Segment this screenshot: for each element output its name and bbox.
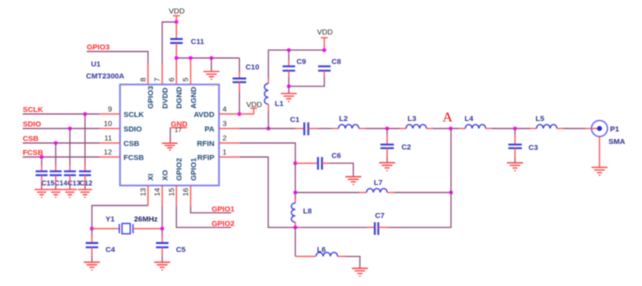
- capacitor C11: [170, 37, 204, 46]
- pin 7 DVDD: [153, 64, 170, 109]
- wire gnd stem: [210, 58, 212, 72]
- node L7: [293, 191, 297, 195]
- svg-text:AGND: AGND: [189, 86, 198, 109]
- wire gnd stem C9: [288, 86, 290, 93]
- capacitor C7: [375, 211, 385, 235]
- inductor L1: [264, 78, 283, 111]
- svg-text:CMT2300A: CMT2300A: [86, 72, 125, 81]
- svg-text:1: 1: [223, 148, 227, 157]
- connector P1 SMA: [592, 121, 626, 147]
- svg-text:SCLK: SCLK: [124, 110, 145, 119]
- pin 13 XI: [139, 174, 156, 206]
- wire rail to C10: [238, 58, 240, 73]
- wire L7 left: [295, 192, 360, 194]
- wire XO down: [161, 206, 163, 229]
- svg-text:C6: C6: [332, 151, 342, 160]
- ground rail: [203, 72, 219, 80]
- wire L2 to C2: [359, 128, 366, 130]
- capacitor C13: [64, 171, 81, 187]
- power VDD top: [169, 7, 185, 23]
- wire C6 right gnd: [322, 162, 329, 164]
- pin 6 DGND: [167, 58, 184, 109]
- node L8 bottom: [293, 226, 297, 230]
- node SCLK: [83, 112, 87, 116]
- capacitor C6: [318, 151, 341, 170]
- svg-text:11: 11: [104, 134, 112, 143]
- svg-text:CSB: CSB: [124, 139, 140, 148]
- wire C6 left: [295, 162, 318, 164]
- pin 11 CSB: [100, 134, 140, 149]
- wire C7 left: [295, 226, 367, 228]
- inductor L3: [406, 114, 426, 129]
- svg-text:RFIN: RFIN: [197, 139, 215, 148]
- capacitor C8: [318, 57, 341, 71]
- wire SDIO: [23, 128, 100, 130]
- capacitor C14: [50, 171, 68, 187]
- svg-text:VDD: VDD: [169, 7, 185, 16]
- wire ground rail: [176, 57, 239, 59]
- svg-text:SMA: SMA: [609, 137, 626, 146]
- node C9 gnd: [287, 84, 291, 88]
- svg-text:L2: L2: [339, 114, 348, 123]
- svg-text:C15: C15: [42, 181, 55, 188]
- svg-text:17: 17: [175, 127, 183, 134]
- node C3: [513, 127, 517, 131]
- svg-text:10: 10: [104, 119, 112, 128]
- wire FCSB: [23, 156, 100, 158]
- svg-text:VDD: VDD: [317, 28, 333, 37]
- svg-text:3: 3: [223, 119, 227, 128]
- node CSB: [54, 141, 58, 145]
- wire L1 to PA: [267, 111, 269, 129]
- svg-text:GPIO1: GPIO1: [189, 158, 198, 181]
- wire VDD to C11: [175, 22, 177, 39]
- wire SCLK to C12: [84, 114, 86, 165]
- wire PA line: [239, 128, 295, 130]
- node rail DGND: [175, 56, 179, 60]
- svg-text:DVDD: DVDD: [160, 87, 169, 109]
- wire C8 bottom: [323, 71, 325, 77]
- wire L5 to P1: [557, 128, 564, 130]
- capacitor C12: [79, 171, 92, 187]
- wire VDD rail right: [268, 50, 324, 78]
- svg-text:CSB: CSB: [23, 134, 39, 143]
- svg-text:L4: L4: [465, 114, 475, 123]
- wire C4 gnd: [91, 247, 93, 256]
- wire C7 right up to A: [378, 226, 387, 228]
- svg-text:C12: C12: [80, 181, 93, 188]
- svg-text:C11: C11: [191, 37, 204, 46]
- svg-text:L1: L1: [275, 99, 284, 108]
- svg-text:C3: C3: [529, 143, 539, 152]
- wire C5 gnd: [161, 247, 163, 256]
- svg-text:VDD: VDD: [246, 100, 262, 109]
- pin 8 GPIO3: [139, 64, 156, 109]
- wire C3 gnd: [514, 148, 516, 158]
- svg-text:16: 16: [181, 188, 190, 196]
- svg-text:SCLK: SCLK: [23, 105, 44, 114]
- pin 14 XO: [153, 170, 170, 206]
- wire C13 gnd: [69, 175, 71, 183]
- wire C1 to L2: [308, 128, 317, 130]
- inductor L4: [465, 114, 486, 129]
- capacitor C10: [233, 63, 260, 83]
- svg-text:XO: XO: [160, 170, 169, 181]
- wire L6 stem: [294, 227, 296, 256]
- node C2: [385, 127, 389, 131]
- power VDD right rail: [317, 28, 333, 51]
- svg-text:12: 12: [104, 148, 112, 157]
- capacitor C4: [86, 243, 116, 254]
- wire GPIO1: [191, 206, 232, 213]
- svg-text:AVDD: AVDD: [194, 110, 215, 119]
- node A: [449, 127, 453, 131]
- svg-text:Y1: Y1: [106, 215, 115, 224]
- svg-text:C14: C14: [55, 181, 68, 188]
- ground chip pad: [162, 143, 178, 150]
- svg-text:8: 8: [139, 78, 148, 82]
- wire C2 gnd: [386, 148, 388, 158]
- svg-text:RFIP: RFIP: [197, 153, 214, 162]
- wire C9 top: [288, 50, 290, 60]
- ground C15: [35, 190, 49, 198]
- inductor L8: [291, 199, 311, 227]
- wire FCSB to C15: [41, 157, 43, 165]
- ground C2: [379, 163, 395, 171]
- ground C9: [281, 94, 297, 102]
- pin 9 SCLK: [100, 105, 145, 120]
- pin 1 RFIP: [197, 148, 239, 163]
- wire AVDD to VDD: [239, 113, 254, 115]
- wire L7 right: [387, 192, 394, 194]
- pin 4 AVDD: [194, 105, 240, 120]
- svg-text:P1: P1: [610, 125, 619, 134]
- pin 5 AGND: [181, 58, 198, 109]
- wire C14 gnd: [55, 175, 57, 183]
- capacitor C1: [290, 115, 308, 135]
- svg-text:L6: L6: [317, 245, 326, 254]
- ground C12: [78, 190, 92, 198]
- node crystal right: [160, 227, 164, 231]
- wire C3 stem: [514, 129, 516, 135]
- inductor L5: [536, 114, 557, 129]
- svg-text:GPIO2: GPIO2: [212, 219, 235, 228]
- svg-text:L3: L3: [408, 114, 417, 123]
- svg-text:C8: C8: [332, 57, 342, 66]
- wire RFIP: [239, 157, 295, 227]
- capacitor C3: [508, 143, 538, 152]
- svg-text:C4: C4: [106, 245, 116, 254]
- svg-text:6: 6: [167, 78, 176, 82]
- capacitor C15: [36, 171, 55, 187]
- svg-text:9: 9: [108, 105, 112, 114]
- svg-text:GPIO1: GPIO1: [212, 205, 235, 214]
- svg-text:SDIO: SDIO: [124, 125, 143, 134]
- svg-text:A: A: [443, 111, 454, 126]
- inductor L7: [367, 178, 388, 193]
- svg-text:XI: XI: [146, 174, 155, 181]
- node VDD top: [175, 20, 179, 24]
- ground P1: [592, 167, 608, 175]
- svg-text:GPIO2: GPIO2: [175, 158, 184, 181]
- svg-text:C9: C9: [297, 57, 307, 66]
- svg-text:SDIO: SDIO: [23, 120, 42, 129]
- capacitor C9: [283, 57, 306, 71]
- pin 10 SDIO: [100, 119, 142, 134]
- ground C14: [49, 190, 63, 198]
- svg-text:C1: C1: [290, 115, 300, 124]
- svg-text:C5: C5: [176, 245, 186, 254]
- wire to C4: [91, 229, 93, 236]
- svg-text:GPIO3: GPIO3: [146, 86, 155, 109]
- wire SDIO to C13: [69, 129, 71, 166]
- pin 12 FCSB: [100, 148, 145, 163]
- wire VDD to DVDD: [162, 22, 176, 64]
- node SDIO: [68, 127, 72, 131]
- node crystal left: [90, 227, 94, 231]
- wire C10 to AVDD: [238, 82, 240, 91]
- capacitor C2: [380, 143, 411, 152]
- wire GPIO3: [87, 52, 148, 65]
- wire SCLK: [23, 113, 100, 115]
- node C9 top: [287, 48, 291, 52]
- node L1 PA: [267, 127, 271, 131]
- svg-text:2: 2: [223, 134, 227, 143]
- node AVDD: [238, 112, 242, 116]
- wire C2 stem: [386, 129, 388, 135]
- svg-text:PA: PA: [205, 125, 215, 134]
- ground C13: [63, 190, 77, 198]
- wire C9 bottom: [288, 71, 290, 77]
- pin 2 RFIN: [197, 134, 240, 149]
- wire L4 to C3: [486, 128, 492, 130]
- svg-text:FCSB: FCSB: [124, 153, 145, 162]
- pin 3 PA: [205, 119, 240, 134]
- capacitor C5: [156, 243, 186, 254]
- pin 16 GPIO1: [181, 158, 198, 206]
- crystal Y1 26MHz: [92, 215, 162, 234]
- wire P1 gnd: [599, 137, 601, 168]
- node L7 right: [449, 191, 453, 195]
- ground L6: [352, 268, 368, 276]
- node rail AGND: [189, 56, 193, 60]
- svg-text:C2: C2: [402, 143, 412, 152]
- node rail gnd stem: [210, 56, 214, 60]
- svg-text:U1: U1: [91, 60, 101, 69]
- ground C3: [507, 163, 523, 171]
- wire RFIN: [239, 143, 295, 163]
- power VDD AVDD: [246, 100, 262, 114]
- inductor L6: [295, 245, 345, 256]
- wire XI to crystal: [92, 206, 148, 229]
- svg-text:14: 14: [153, 188, 162, 196]
- svg-text:26MHz: 26MHz: [134, 215, 158, 224]
- svg-text:GPIO3: GPIO3: [87, 43, 110, 52]
- pin 17 GND pad: [170, 119, 188, 143]
- wire L3 to A: [426, 128, 433, 130]
- wire L8 top: [294, 163, 296, 199]
- node C6 L8: [293, 161, 297, 165]
- svg-text:L5: L5: [536, 114, 545, 123]
- inductor L2: [339, 114, 359, 129]
- svg-text:5: 5: [181, 78, 190, 82]
- ground C5: [154, 262, 170, 270]
- svg-text:7: 7: [153, 78, 162, 82]
- wire C15 gnd: [41, 175, 43, 183]
- wire C12 gnd: [84, 175, 86, 183]
- svg-text:C10: C10: [246, 63, 260, 72]
- svg-text:DGND: DGND: [175, 86, 184, 109]
- wire CSB: [23, 142, 100, 144]
- svg-text:L7: L7: [374, 178, 383, 187]
- pin 15 GPIO2: [167, 158, 184, 206]
- svg-text:13: 13: [139, 188, 148, 196]
- ground C4: [84, 262, 100, 270]
- ground C6: [345, 177, 361, 185]
- svg-text:4: 4: [223, 105, 227, 114]
- IC U1 CMT2300A: [86, 60, 219, 186]
- wire CSB to C14: [55, 143, 57, 165]
- wire L6 gnd: [345, 256, 360, 268]
- wire GPIO2: [176, 206, 231, 228]
- wire C11 to rail: [175, 43, 177, 58]
- svg-text:15: 15: [167, 188, 176, 196]
- node C8 top: [322, 48, 326, 52]
- svg-text:L8: L8: [303, 207, 312, 216]
- node FCSB: [40, 155, 44, 159]
- svg-text:C7: C7: [375, 211, 385, 220]
- wire to C5: [161, 229, 163, 236]
